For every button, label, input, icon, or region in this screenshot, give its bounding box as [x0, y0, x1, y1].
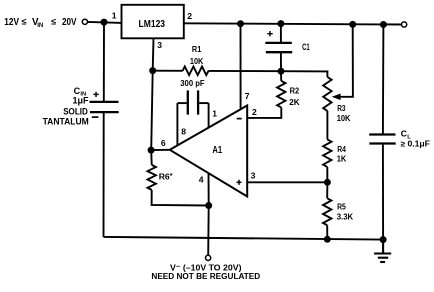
resistor R1: [153, 67, 281, 76]
wire noninverting input to divider: [247, 181, 327, 183]
label R5 3.3K: [337, 201, 354, 221]
wire pin6 to apex: [151, 149, 170, 151]
svg-text:1: 1: [112, 11, 117, 21]
op-amp A1: [170, 106, 247, 197]
resistor R4: [323, 139, 331, 167]
CIN polarity minus: [92, 116, 99, 118]
svg-text:C1: C1: [302, 42, 310, 52]
label R1 10K: [190, 44, 204, 66]
potentiometer R3: [323, 77, 331, 111]
capacitor CL: [369, 25, 396, 240]
node pin3 wire / divider: [324, 179, 331, 186]
svg-text:≤: ≤: [51, 17, 56, 27]
wire LM123 pin3 drop: [152, 38, 155, 70]
svg-text:3: 3: [157, 40, 162, 50]
ground: [374, 240, 391, 262]
A1 minus input sign: [237, 118, 242, 120]
label R2 2K: [289, 86, 300, 107]
svg-text:C: C: [401, 129, 407, 139]
wire pin4 drop: [208, 173, 210, 205]
svg-text:12V: 12V: [4, 17, 19, 28]
resistor R2: [277, 71, 285, 117]
wire bottom rail: [104, 237, 384, 240]
output terminal: [402, 22, 407, 27]
wire V- drop: [207, 206, 210, 256]
capacitor C1: [265, 24, 292, 72]
svg-text:R4: R4: [337, 144, 346, 154]
wire CIN bottom drop: [103, 112, 105, 237]
label CIN block: [43, 86, 89, 127]
input terminal: [82, 19, 87, 24]
svg-text:R5: R5: [337, 201, 346, 211]
svg-text:3: 3: [251, 170, 256, 180]
node rail/pin7: [237, 20, 244, 27]
CIN polarity plus: [93, 92, 98, 97]
R3 wiper arrowhead: [332, 94, 341, 101]
node bottom rail / ground: [380, 236, 387, 243]
svg-text:≥ 0.1μF: ≥ 0.1μF: [401, 139, 430, 149]
svg-text:2: 2: [252, 107, 257, 117]
V- terminal: [206, 255, 211, 260]
svg-text:3.3K: 3.3K: [337, 212, 354, 222]
svg-text:R6*: R6*: [159, 171, 173, 181]
svg-text:1μF: 1μF: [73, 96, 90, 106]
svg-text:LM123: LM123: [139, 19, 166, 30]
wire input drop to CIN: [103, 22, 105, 101]
wire R3 to R4: [326, 111, 328, 139]
svg-text:8: 8: [181, 127, 186, 137]
svg-text:10K: 10K: [337, 113, 351, 123]
label R3 10K: [337, 103, 351, 123]
wire top rail right segment: [183, 23, 402, 24]
capacitor CIN: [90, 102, 119, 112]
wire junction to R3 top: [281, 71, 327, 77]
node pin6: [148, 147, 155, 154]
svg-text:6: 6: [161, 138, 166, 148]
R3 wiper arm: [340, 24, 353, 96]
svg-text:NEED NOT BE REGULATED: NEED NOT BE REGULATED: [151, 271, 260, 281]
wire pin7 drop from rail: [240, 24, 242, 109]
svg-text:4: 4: [199, 174, 204, 184]
svg-text:1: 1: [212, 108, 217, 118]
svg-text:R1: R1: [192, 44, 202, 54]
svg-text:R3: R3: [337, 103, 346, 113]
svg-text:300 pF: 300 pF: [180, 78, 204, 88]
svg-text:2: 2: [187, 11, 192, 21]
node input junction: [101, 19, 108, 26]
regulator U LM123: [122, 5, 184, 39]
svg-text:7: 7: [245, 91, 250, 101]
resistor R6: [148, 150, 209, 205]
node R1/C1/R2 junction: [278, 68, 285, 75]
node pin4 / R6 / V-: [205, 202, 212, 209]
node rail/C1: [277, 20, 284, 27]
label R4 1K: [337, 144, 347, 164]
svg-text:10K: 10K: [190, 56, 204, 66]
svg-text:IN: IN: [37, 23, 43, 29]
C1 polarity plus: [267, 31, 272, 36]
svg-text:SOLID: SOLID: [63, 106, 88, 116]
label CL >= 0.1uF: [401, 129, 430, 149]
A1 plus input sign: [237, 180, 242, 185]
svg-text:TANTALUM: TANTALUM: [43, 117, 89, 127]
node rail/wiper: [349, 21, 356, 28]
svg-text:A1: A1: [212, 145, 222, 156]
wire pin3 junction down to pin6 node: [151, 71, 153, 151]
node bottom rail / R5: [324, 236, 331, 243]
svg-text:20V: 20V: [62, 17, 77, 28]
svg-text:R2: R2: [290, 86, 300, 96]
svg-text:≤: ≤: [22, 17, 27, 27]
svg-text:2K: 2K: [289, 97, 300, 107]
node pin3/R1 junction: [149, 67, 156, 74]
label 12V <= VIN <= 20V: [4, 17, 77, 30]
wire top rail left segment: [88, 22, 123, 23]
wire pin2 inverting input: [247, 116, 281, 119]
resistor R5: [323, 182, 331, 239]
svg-text:1K: 1K: [337, 153, 347, 163]
capacitor 300pF comp: [177, 90, 208, 145]
node rail/CL: [380, 21, 387, 28]
